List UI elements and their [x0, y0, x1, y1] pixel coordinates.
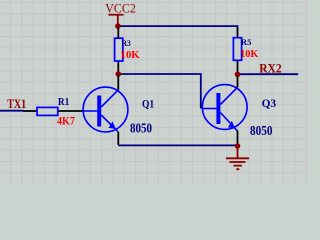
svg-text:R1: R1: [58, 97, 70, 108]
svg-text:VCC2: VCC2: [105, 1, 136, 15]
transistor Q3: [202, 76, 247, 145]
svg-text:R3: R3: [122, 38, 131, 48]
svg-text:TX1: TX1: [7, 97, 26, 111]
wire RX2 output: [238, 73, 299, 75]
svg-text:R5: R5: [241, 37, 252, 47]
ground: [226, 146, 249, 169]
svg-text:10K: 10K: [240, 48, 259, 60]
node junction below R5: [235, 72, 241, 78]
wire TX1 input: [0, 110, 24, 112]
power symbol VCC2: [108, 15, 123, 26]
node junction below R3: [116, 71, 122, 77]
svg-text:10K: 10K: [120, 49, 140, 61]
resistor R5: [233, 28, 241, 74]
transistor Q1: [58, 76, 128, 145]
wire Q1 emitter to ground: [118, 144, 237, 146]
resistor R1: [23, 107, 59, 115]
node junction at ground: [235, 143, 241, 149]
svg-text:4K7: 4K7: [57, 113, 75, 127]
resistor R3: [115, 28, 123, 73]
svg-text:8050: 8050: [130, 120, 152, 135]
wire R3 node to Q3 base: [118, 74, 201, 109]
svg-text:RX2: RX2: [259, 61, 282, 75]
svg-text:Q1: Q1: [142, 96, 154, 110]
svg-text:Q3: Q3: [262, 96, 277, 110]
svg-text:8050: 8050: [250, 123, 273, 138]
node junction at VCC: [115, 23, 121, 29]
wire VCC node to R5 top: [118, 26, 237, 31]
